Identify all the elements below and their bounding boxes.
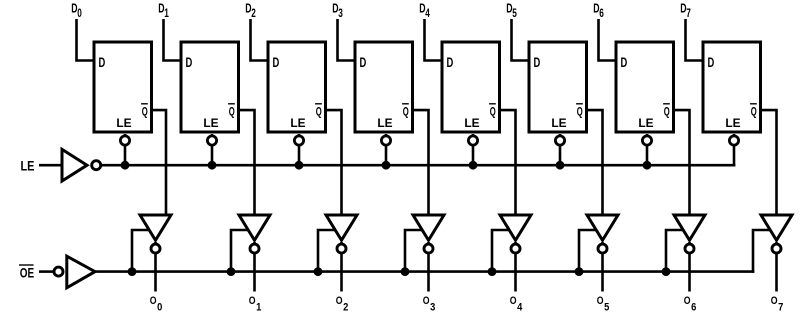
svg-text:Q: Q [229,105,235,119]
wire LE input to inverter U9 [39,164,64,167]
svg-text:O: O [336,295,343,307]
output O7 label [771,295,784,314]
wire Q-bar of U2 to tri-state buffer 2 [238,110,255,217]
tri-state inverter buffer 6 [587,215,618,240]
latch U1 (transparent D latch) [94,42,152,132]
input D7 label [680,1,691,20]
svg-text:Q: Q [751,105,757,119]
wire OE bus to enable of tri-state buffer 5 [492,230,511,272]
wire D1 to latch U2 pin D [164,19,183,61]
output bubble of buffer 8 [772,244,781,253]
wire Q-bar of U1 to tri-state buffer 1 [151,110,167,217]
output O1 label [249,295,262,314]
pin label D (U2) [186,55,193,70]
pin label Q-bar (U3) [315,104,322,119]
wire output of buffer 3 to O2 [340,242,343,292]
wire output of buffer 1 to O0 [154,242,157,292]
latch U3 (transparent D latch) [268,42,326,132]
pin label LE (U7) [638,117,653,130]
tri-state inverter buffer 4 [413,215,444,240]
latch U6 (transparent D latch) [529,42,587,132]
latch U7 (transparent D latch) [616,42,674,132]
wire output of buffer 8 to O7 [775,242,778,292]
tri-state inverter buffer 2 [239,215,270,240]
output bubble of buffer 7 [685,244,694,253]
pin label Q-bar (U4) [402,104,409,119]
wire OE bus to enable of tri-state buffer 7 [666,230,685,272]
wire latch U6 LE pin to LE bus [559,134,562,167]
LE pin bubble (U1) [120,136,129,145]
svg-text:3: 3 [430,302,435,314]
wire Q-bar of U7 to tri-state buffer 7 [673,110,690,217]
pin label D (U7) [621,55,628,70]
output O5 label [597,295,610,314]
wire D6 to latch U7 pin D [599,19,618,61]
svg-text:LE: LE [21,158,35,173]
svg-text:O: O [249,295,256,307]
svg-text:D: D [447,55,454,70]
svg-text:D: D [99,55,106,70]
svg-text:Q: Q [403,105,409,119]
svg-text:Q: Q [142,105,148,119]
svg-text:Q: Q [577,105,583,119]
output O2 label [336,295,349,314]
output bubble of buffer 2 [250,244,259,253]
svg-text:5: 5 [512,6,517,20]
LE bus wire (inverter output to all latch LE pins) [101,164,736,167]
output O0 label [150,295,163,314]
wire latch U2 LE pin to LE bus [211,134,214,167]
wire latch U3 LE pin to LE bus [298,134,301,167]
svg-text:D: D [360,55,367,70]
output O3 label [423,295,436,314]
junction LE bus / U3 [295,161,304,170]
output bubble of buffer 1 [151,244,160,253]
pin label D (U1) [99,55,106,70]
pin label D (U8) [708,55,715,70]
wire Q-bar of U4 to tri-state buffer 4 [412,110,429,217]
wire OE input to buffer U10 [39,270,54,273]
wire D2 to latch U3 pin D [251,19,270,61]
pin label LE (U3) [290,117,305,130]
svg-text:1: 1 [164,6,169,20]
svg-text:7: 7 [686,6,691,20]
svg-text:OE: OE [20,265,34,280]
svg-text:LE: LE [290,117,305,130]
tri-state inverter buffer 3 [326,215,357,240]
pin label LE (U6) [551,117,566,130]
junction OE bus / buffer 5 [488,267,497,276]
svg-text:D: D [621,55,628,70]
svg-text:LE: LE [725,117,740,130]
wire output of buffer 5 to O4 [514,242,517,292]
junction LE bus / U2 [208,161,217,170]
tri-state inverter buffer 8 [761,215,792,240]
junction OE bus / buffer 3 [314,267,323,276]
input D0 label [71,1,82,20]
input D3 label [332,1,343,20]
svg-text:1: 1 [256,302,262,314]
wire OE bus to enable of tri-state buffer 6 [579,230,598,272]
pin label LE (U1) [116,117,131,130]
wire D3 to latch U4 pin D [338,19,357,61]
junction OE bus / buffer 1 [128,267,137,276]
LE pin bubble (U3) [294,136,303,145]
svg-text:LE: LE [377,117,392,130]
LE pin bubble (U4) [381,136,390,145]
svg-text:4: 4 [517,302,523,314]
pin label D (U3) [273,55,280,70]
junction LE bus / U7 [643,161,652,170]
wire D5 to latch U6 pin D [512,19,531,61]
wire OE bus to enable of tri-state buffer 2 [231,230,250,272]
svg-text:LE: LE [638,117,653,130]
svg-text:Q: Q [316,105,322,119]
OE bus wire (buffer output to all tri-state enables) [94,270,755,273]
wire OE bus to enable of tri-state buffer 8 [753,230,772,273]
latch U4 (transparent D latch) [355,42,413,132]
buffer U10 input bubble [54,267,63,276]
svg-text:D: D [273,55,280,70]
tri-state inverter buffer 7 [674,215,705,240]
latch U2 (transparent D latch) [181,42,239,132]
wire output of buffer 7 to O6 [688,242,691,292]
net label OE (active low, overline) [19,265,34,280]
pin label LE (U8) [725,117,740,130]
junction LE bus / U5 [469,161,478,170]
output bubble of buffer 5 [511,244,520,253]
input D4 label [419,1,430,20]
output bubble of buffer 4 [424,244,433,253]
LE pin bubble (U8) [729,136,738,145]
wire latch U7 LE pin to LE bus [646,134,649,167]
inverter U9 (LE driver) [62,149,87,181]
inverter U9 output bubble [92,161,101,170]
pin label Q-bar (U8) [750,104,757,119]
pin label D (U4) [360,55,367,70]
tri-state inverter buffer 1 [140,215,171,240]
svg-text:3: 3 [338,6,343,20]
svg-text:O: O [771,295,778,307]
pin label D (U5) [447,55,454,70]
input D5 label [506,1,517,20]
output O4 label [510,295,523,314]
LE pin bubble (U6) [555,136,564,145]
wire Q-bar of U6 to tri-state buffer 6 [586,110,603,217]
pin label LE (U2) [203,117,218,130]
svg-text:6: 6 [691,302,696,314]
wire OE bus to enable of tri-state buffer 1 [132,230,151,272]
pin label Q-bar (U1) [141,104,148,119]
input D2 label [245,1,256,20]
svg-text:LE: LE [464,117,479,130]
wire output of buffer 6 to O5 [601,242,604,292]
wire output of buffer 4 to O3 [427,242,430,292]
svg-text:O: O [597,295,604,307]
wire latch U8 LE pin to LE bus [733,134,736,167]
tri-state inverter buffer 5 [500,215,531,240]
svg-text:0: 0 [157,302,162,314]
buffer U10 (OE driver) [67,256,95,288]
svg-text:Q: Q [664,105,670,119]
svg-text:5: 5 [604,302,610,314]
latch U8 (transparent D latch) [703,42,761,132]
junction LE bus / U6 [556,161,565,170]
wire latch U5 LE pin to LE bus [472,134,475,167]
wire output of buffer 2 to O1 [253,242,256,292]
output bubble of buffer 6 [598,244,607,253]
svg-text:LE: LE [203,117,218,130]
svg-text:O: O [150,295,157,307]
svg-text:LE: LE [116,117,131,130]
wire D4 to latch U5 pin D [425,19,444,61]
wire OE bus to enable of tri-state buffer 3 [318,230,337,272]
junction OE bus / buffer 4 [401,267,410,276]
junction OE bus / buffer 6 [575,267,584,276]
svg-text:O: O [510,295,517,307]
svg-text:2: 2 [343,302,348,314]
wire Q-bar of U3 to tri-state buffer 3 [325,110,342,217]
LE pin bubble (U7) [642,136,651,145]
output O6 label [684,295,697,314]
svg-text:4: 4 [425,6,430,20]
junction LE bus / U1 [121,161,130,170]
svg-text:O: O [684,295,691,307]
svg-text:7: 7 [778,302,783,314]
pin label Q-bar (U2) [228,104,235,119]
svg-text:0: 0 [77,6,82,20]
svg-text:D: D [534,55,541,70]
svg-text:D: D [186,55,193,70]
pin label LE (U5) [464,117,479,130]
input D6 label [593,1,604,20]
output bubble of buffer 3 [337,244,346,253]
junction OE bus / buffer 7 [662,267,671,276]
svg-text:LE: LE [551,117,566,130]
pin label LE (U4) [377,117,392,130]
pin label Q-bar (U7) [663,104,670,119]
net label LE [21,158,35,173]
pin label D (U6) [534,55,541,70]
wire Q-bar of U8 to tri-state buffer 8 [760,110,777,217]
junction LE bus / U4 [382,161,391,170]
wire OE bus to enable of tri-state buffer 4 [405,230,424,272]
wire Q-bar of U5 to tri-state buffer 5 [499,110,516,217]
LE pin bubble (U5) [468,136,477,145]
pin label Q-bar (U6) [576,104,583,119]
svg-text:O: O [423,295,430,307]
junction OE bus / buffer 2 [227,267,236,276]
wire D0 to latch U1 pin D [77,19,96,61]
svg-text:D: D [708,55,715,70]
wire latch U1 LE pin to LE bus [124,134,127,167]
latch U5 (transparent D latch) [442,42,500,132]
pin label Q-bar (U5) [489,104,496,119]
input D1 label [158,1,169,20]
svg-text:2: 2 [251,6,256,20]
svg-text:6: 6 [599,6,604,20]
wire D7 to latch U8 pin D [686,19,705,61]
LE pin bubble (U2) [207,136,216,145]
svg-text:Q: Q [490,105,496,119]
wire latch U4 LE pin to LE bus [385,134,388,167]
